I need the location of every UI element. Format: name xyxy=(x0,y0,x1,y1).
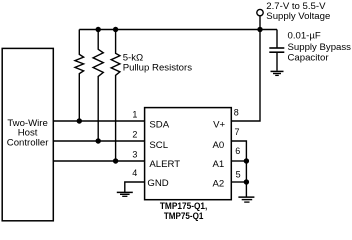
svg-text:Pullup Resistors: Pullup Resistors xyxy=(123,62,193,73)
label: supply voltage xyxy=(266,1,330,22)
junction dot: R2 top / supply rail xyxy=(96,27,101,32)
svg-text:GND: GND xyxy=(147,178,168,189)
wire: pin 7 A0 to address ground rail xyxy=(231,141,246,197)
capacitor C1 lead (top) xyxy=(276,30,278,49)
junction dot: R3 top / supply rail xyxy=(113,27,118,32)
svg-text:4: 4 xyxy=(132,168,137,178)
svg-text:V+: V+ xyxy=(213,120,225,131)
IC pin name labels (right) xyxy=(212,120,225,190)
svg-text:8: 8 xyxy=(234,108,239,118)
capacitor C1 lead (bottom) xyxy=(276,52,278,70)
label: 5-kohm pullup resistors xyxy=(123,53,193,74)
capacitor C1 plates xyxy=(269,47,284,49)
svg-text:2: 2 xyxy=(132,129,137,139)
ground (address pins) xyxy=(238,197,254,202)
IC pin name labels (left) xyxy=(147,120,180,189)
junction dot: A2 / address rail xyxy=(244,179,249,184)
wire: V+ supply rail (top) xyxy=(79,29,277,31)
svg-text:TMP75-Q1: TMP75-Q1 xyxy=(164,211,204,222)
svg-text:Supply Voltage: Supply Voltage xyxy=(266,11,330,22)
svg-text:6: 6 xyxy=(235,146,240,156)
svg-text:ALERT: ALERT xyxy=(149,159,180,170)
svg-text:3: 3 xyxy=(132,149,137,159)
host controller box U2 xyxy=(2,48,53,220)
svg-text:A1: A1 xyxy=(212,159,224,170)
label: bypass capacitor value xyxy=(288,31,352,64)
svg-text:SCL: SCL xyxy=(149,140,168,151)
ground (bypass capacitor) xyxy=(271,71,284,75)
wire: pin 4 GND stub xyxy=(125,182,145,192)
resistor R2 (5-kohm pullup, SCL) xyxy=(93,30,103,142)
svg-text:Supply Bypass: Supply Bypass xyxy=(288,42,352,53)
wire: pin 6 A1 stub xyxy=(231,160,246,162)
junction dot: R2 bottom / SCL xyxy=(96,138,101,143)
resistor R1 (5-kohm pullup, SDA) xyxy=(75,30,84,122)
wire: SDA net (host to pin 1) xyxy=(53,120,144,122)
supply terminal circle xyxy=(257,9,263,15)
svg-text:5: 5 xyxy=(236,169,241,179)
IC U1 TMP175-Q1 box xyxy=(145,108,232,200)
IC name label xyxy=(160,201,208,222)
wire: supply terminal down to pin 8 xyxy=(231,16,260,121)
wire: SCL net (host to pin 2) xyxy=(53,140,144,142)
svg-text:A2: A2 xyxy=(212,178,224,189)
resistor R3 (5-kohm pullup, ALERT) xyxy=(111,30,120,162)
svg-text:A0: A0 xyxy=(212,140,224,151)
svg-text:1: 1 xyxy=(132,110,137,120)
svg-text:0.01-µF: 0.01-µF xyxy=(288,31,321,42)
host controller label xyxy=(7,118,49,148)
svg-text:Controller: Controller xyxy=(7,137,49,148)
junction dot: R3 bottom / ALERT xyxy=(113,158,118,163)
junction dot: A1 / address rail xyxy=(244,158,249,163)
wire: pin 5 A2 stub xyxy=(231,181,246,183)
wire: ALERT net (host to pin 3) xyxy=(53,160,144,162)
svg-text:Capacitor: Capacitor xyxy=(288,53,330,64)
junction dot: R1 bottom / SDA xyxy=(77,118,82,123)
junction dot: supply rail / terminal xyxy=(257,27,262,32)
ground (pin 4 GND) xyxy=(117,192,133,196)
svg-text:SDA: SDA xyxy=(149,120,169,131)
svg-text:7: 7 xyxy=(234,127,239,137)
